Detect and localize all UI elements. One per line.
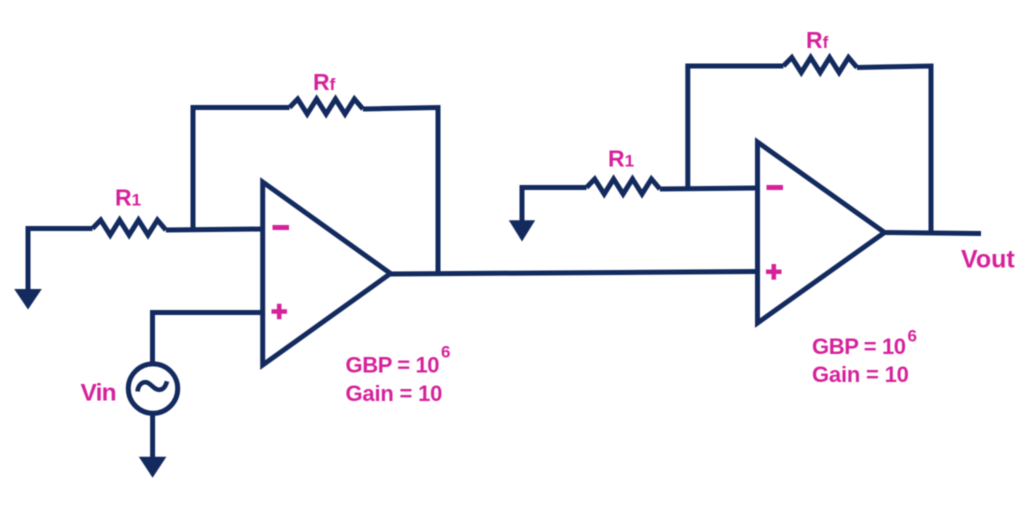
arrowhead ground below Vin	[139, 457, 167, 478]
label Vout	[961, 246, 1015, 274]
ground arrow stub left of R1 stage 1	[28, 229, 93, 292]
svg-text:6: 6	[441, 343, 450, 362]
wire non-inverting input to Vin source	[153, 313, 264, 364]
wire feedback loop stage 2	[688, 66, 784, 188]
arrowhead ground stage 2	[509, 220, 535, 241]
wire Rf to right vertical, down to output node stage 1	[363, 108, 438, 274]
svg-text:Vin: Vin	[81, 380, 116, 407]
label R1 stage 1	[115, 185, 141, 211]
wire stage 1 output to stage 2 non-inverting input	[391, 272, 758, 275]
resistor Rf stage 2	[783, 58, 857, 73]
svg-text:GBP = 10: GBP = 10	[346, 353, 440, 378]
wire R1 to op-amp inverting input	[166, 229, 263, 230]
label Gain stage 2	[812, 362, 909, 387]
label Rf stage 2	[806, 27, 829, 53]
plus sign U1 non-inverting input	[272, 304, 288, 320]
resistor R1 stage 1	[93, 220, 166, 235]
resistor R1 stage 2	[587, 179, 660, 194]
label Vin	[81, 380, 116, 407]
op-amp U2	[758, 142, 885, 323]
label R1 stage 2	[608, 146, 634, 172]
wire R1 to op-amp 2 inverting input	[660, 188, 758, 189]
svg-text:Vout: Vout	[961, 246, 1015, 274]
source Vin circle	[128, 364, 177, 413]
resistor Rf stage 1	[290, 99, 363, 114]
svg-text:R1: R1	[115, 185, 141, 211]
wire output Vout stage 2	[885, 233, 982, 234]
wire Rf2 to right vertical, down to output node stage 2	[857, 66, 931, 233]
sine symbol inside Vin source	[138, 381, 168, 391]
minus sign U2 inverting input	[767, 185, 784, 190]
svg-text:R1: R1	[608, 146, 634, 172]
op-amp U1	[263, 182, 391, 365]
svg-text:Rf: Rf	[806, 27, 829, 53]
label Rf stage 1	[313, 69, 336, 95]
wire Vin source to ground arrow	[150, 413, 155, 458]
label Gain stage 1	[346, 381, 443, 406]
arrowhead ground stage 1	[14, 289, 42, 310]
svg-text:GBP = 10: GBP = 10	[812, 334, 906, 359]
plus sign U2 non-inverting input	[766, 264, 782, 280]
svg-text:Gain = 10: Gain = 10	[346, 381, 443, 406]
label GBP stage 2	[812, 327, 917, 360]
minus sign U1 inverting input	[273, 225, 290, 230]
svg-text:6: 6	[908, 327, 917, 346]
svg-text:Gain = 10: Gain = 10	[812, 362, 909, 387]
wire feedback loop stage 1 with node at inverting input	[193, 108, 290, 229]
svg-text:Rf: Rf	[313, 69, 336, 95]
label GBP stage 1	[346, 343, 451, 378]
ground arrow stub left of R1 stage 2	[522, 188, 587, 225]
